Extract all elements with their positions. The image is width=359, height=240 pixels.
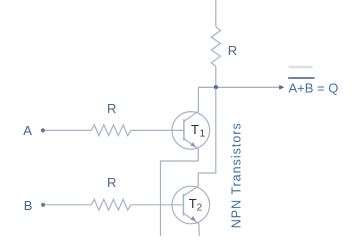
- transistor T1 emitter arrowhead: [191, 142, 196, 147]
- transistor T2 collector: [183, 186, 198, 196]
- transistor T2 base bar: [182, 194, 184, 216]
- wire input A: [45, 129, 91, 131]
- output arrowhead: [279, 85, 284, 90]
- svg-text:A: A: [23, 123, 32, 138]
- transistor T1 emitter: [184, 139, 198, 161]
- wire VCC rail top: [215, 0, 217, 27]
- svg-text:2: 2: [197, 203, 203, 214]
- svg-text:1: 1: [200, 128, 206, 139]
- svg-text:B: B: [24, 198, 33, 213]
- svg-text:R: R: [228, 43, 237, 58]
- node input B terminal dot: [41, 203, 45, 207]
- svg-text:R: R: [107, 101, 116, 116]
- transistor T2 emitter arrowhead: [191, 216, 196, 221]
- svg-text:T: T: [191, 122, 199, 137]
- wire output horizontal: [198, 86, 280, 88]
- wire resistor B to T2 base: [131, 204, 183, 206]
- wire rail junction down to T2 collector: [198, 87, 216, 186]
- transistor T1 collector: [184, 87, 199, 121]
- transistor T2 circle: [172, 186, 210, 224]
- wire ghost artifact above overline: [289, 66, 313, 68]
- wire resistor to junction: [215, 67, 217, 88]
- svg-text:T: T: [189, 196, 197, 211]
- node input A terminal dot: [41, 128, 45, 132]
- node junction dot: [214, 85, 218, 89]
- transistor T1 base bar: [183, 119, 185, 140]
- wire input B: [45, 204, 91, 206]
- wire resistor A to T1 base: [131, 129, 184, 131]
- resistor R (input A): [91, 125, 131, 136]
- svg-text:NPN Transistors: NPN Transistors: [229, 122, 243, 228]
- wire T1 emitter to ground: [161, 161, 199, 236]
- transistor T2 emitter: [183, 213, 199, 236]
- transistor T1 circle: [172, 112, 210, 150]
- resistor R (collector load): [211, 27, 220, 67]
- svg-text:A+B = Q: A+B = Q: [289, 81, 339, 96]
- svg-text:R: R: [107, 175, 116, 190]
- resistor R (input B): [91, 199, 131, 210]
